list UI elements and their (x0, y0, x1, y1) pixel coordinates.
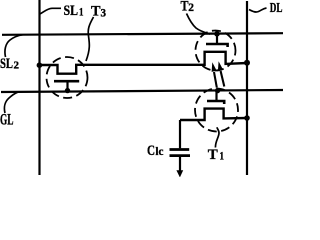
svg-text:2: 2 (188, 0, 194, 14)
svg-text:2: 2 (14, 60, 20, 72)
svg-text:T: T (91, 4, 101, 20)
svg-text:SL: SL (64, 3, 79, 19)
svg-text:1: 1 (220, 149, 225, 163)
svg-text:T: T (181, 0, 189, 15)
svg-text:C: C (147, 143, 155, 159)
svg-text:T: T (208, 147, 218, 163)
svg-text:3: 3 (101, 6, 107, 20)
svg-text:SL: SL (0, 56, 13, 72)
svg-text:DL: DL (270, 0, 283, 15)
svg-text:1: 1 (79, 5, 84, 19)
svg-text:lc: lc (155, 146, 163, 158)
svg-text:GL: GL (0, 111, 14, 128)
